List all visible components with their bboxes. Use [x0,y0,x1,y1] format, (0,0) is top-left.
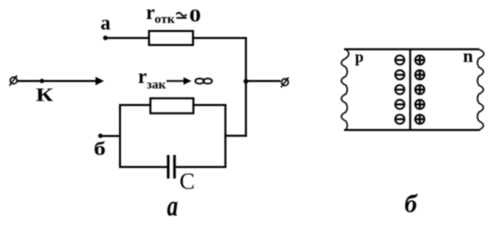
svg-text:К: К [36,85,54,106]
svg-text:p: p [355,49,364,66]
svg-text:0: 0 [189,6,201,26]
svg-text:n: n [463,46,473,66]
svg-text:зак: зак [147,77,167,92]
svg-text:б: б [94,140,106,160]
svg-text:С: С [180,169,195,194]
svg-text:б: б [405,191,419,218]
svg-text:а: а [167,191,178,223]
svg-text:а: а [101,13,111,35]
svg-text:отк: отк [155,11,176,26]
